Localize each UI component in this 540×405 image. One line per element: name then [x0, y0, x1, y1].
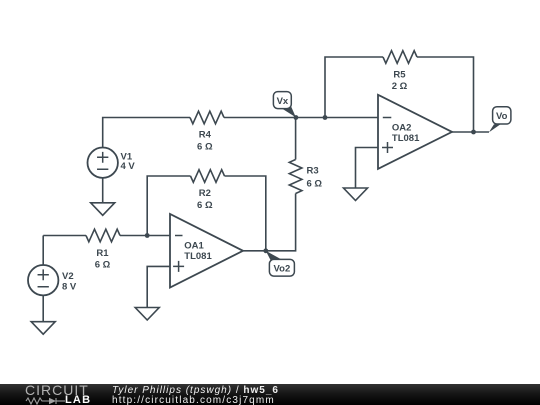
resistor R4	[190, 111, 224, 124]
svg-text:4 V: 4 V	[121, 161, 136, 172]
wire V2 top lead	[42, 236, 44, 266]
svg-text:OA2: OA2	[392, 122, 412, 133]
op-amp OA2	[378, 95, 452, 169]
junction node feedback tap	[323, 115, 328, 120]
wire OA2 output to Vo	[452, 131, 489, 133]
junction node OA1 output	[263, 248, 268, 253]
wire V2 bottom lead	[42, 295, 44, 321]
resistor R2	[191, 170, 225, 183]
wire V1 bottom lead	[102, 178, 104, 203]
ground for V1	[91, 203, 115, 216]
svg-text:6 Ω: 6 Ω	[197, 200, 213, 211]
svg-text:8 V: 8 V	[62, 281, 77, 292]
ground for V2	[31, 322, 55, 335]
logo resistor zigzag and diode	[26, 398, 65, 404]
footer title line	[112, 386, 279, 396]
wire R1 left from V2	[43, 235, 86, 237]
svg-text:R5: R5	[393, 69, 406, 80]
svg-text:6 Ω: 6 Ω	[95, 260, 111, 271]
svg-text:6 Ω: 6 Ω	[307, 178, 323, 189]
svg-text:R2: R2	[199, 188, 211, 199]
junction node OA1 input	[145, 233, 150, 238]
resistor R5	[383, 51, 417, 64]
node flag Vo	[489, 107, 511, 133]
op-amp OA1	[170, 214, 243, 288]
voltage source V1	[88, 148, 118, 178]
ground for OA2 plus input	[344, 188, 368, 201]
wire R4 to OA2 minus input	[224, 117, 378, 119]
svg-text:TL081: TL081	[184, 251, 212, 262]
CircuitLab logo	[25, 383, 89, 397]
svg-text:R3: R3	[307, 165, 319, 176]
wire feedback right vertical	[417, 57, 474, 132]
wire OA1 output to R3 bottom	[243, 194, 296, 251]
footer url line	[112, 396, 275, 405]
wire R2 right vertical to output node	[225, 176, 266, 251]
footer bar	[0, 384, 540, 405]
wire V1 top to R4	[103, 118, 190, 148]
ground for OA1 plus input	[135, 308, 159, 321]
wire OA2 plus to ground	[356, 148, 379, 189]
resistor R3	[289, 160, 302, 194]
junction node at Vx	[294, 115, 299, 120]
svg-text:6 Ω: 6 Ω	[197, 141, 213, 152]
voltage source V2	[28, 265, 58, 295]
junction node OA2 output	[471, 130, 476, 135]
wire node A up to R2 loop	[147, 176, 190, 236]
svg-text:2 Ω: 2 Ω	[392, 81, 408, 92]
svg-text:Vo: Vo	[496, 111, 508, 122]
resistor R1	[86, 229, 120, 242]
svg-text:Vx: Vx	[277, 96, 289, 107]
node flag Vx	[273, 92, 296, 118]
svg-text:Vo2: Vo2	[274, 263, 291, 274]
svg-text:R4: R4	[199, 130, 212, 141]
svg-text:TL081: TL081	[392, 133, 420, 144]
node flag Vo2	[266, 251, 295, 276]
wire R3 top to Vx node	[295, 118, 297, 160]
svg-text:V2: V2	[62, 271, 74, 282]
wire OA1 plus to ground	[147, 266, 170, 307]
svg-text:R1: R1	[96, 248, 109, 259]
wire feedback left vertical	[325, 57, 383, 118]
wire R1 to OA1 minus input	[120, 235, 170, 237]
